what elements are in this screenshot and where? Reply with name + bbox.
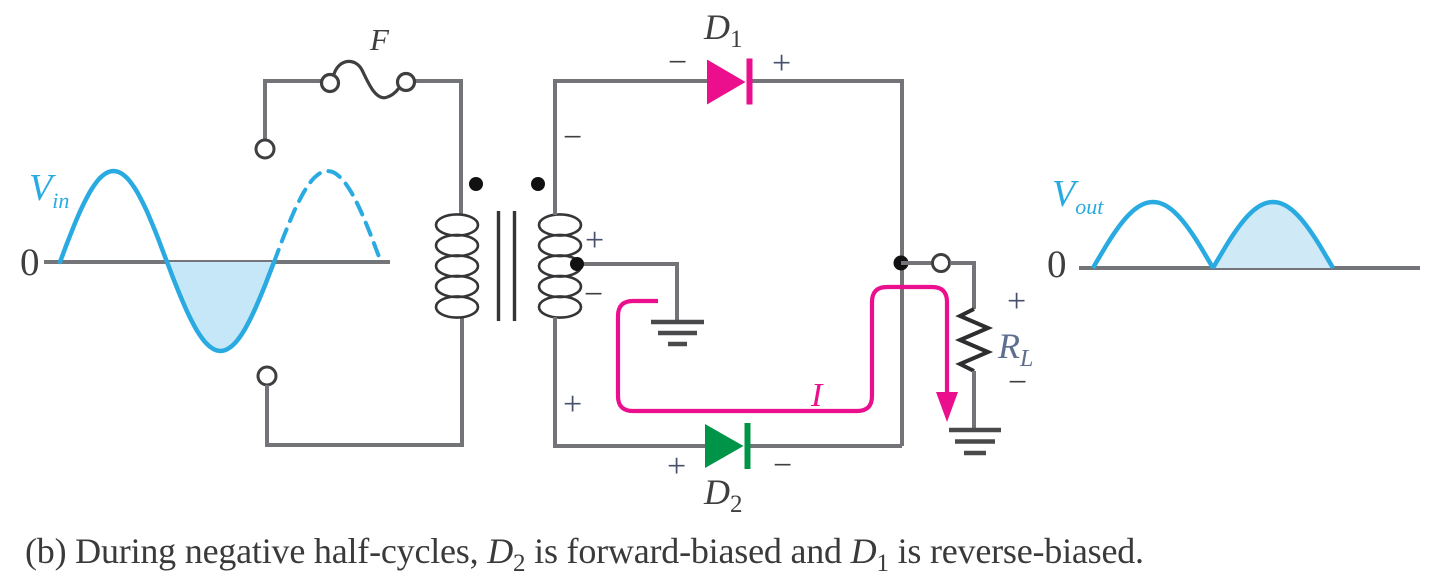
Vout second half-cycle hump (shaded) <box>1213 202 1333 268</box>
diode D1 (reverse-biased, magenta) <box>707 59 750 105</box>
svg-text:+: + <box>667 448 686 485</box>
wire: bottom-left from terminal to primary bottom <box>267 317 462 445</box>
svg-text:+: + <box>1007 283 1026 320</box>
Vout zero axis <box>1079 266 1420 270</box>
resistor RL zigzag <box>960 309 988 371</box>
svg-text:+: + <box>563 386 582 423</box>
svg-text:−: − <box>668 44 687 81</box>
svg-text:I: I <box>810 377 824 414</box>
input terminal (top, open circle) <box>256 140 274 158</box>
svg-text:0: 0 <box>20 241 40 284</box>
ground symbol (center tap) <box>651 322 704 344</box>
wire: RL bottom to ground <box>972 371 976 428</box>
wire: secondary top to D1 anode <box>555 81 709 215</box>
wire: secondary bottom rail to D2 <box>555 317 706 446</box>
svg-text:+: + <box>772 45 791 82</box>
svg-text:D2: D2 <box>703 472 743 518</box>
wire: top-left terminal stub <box>265 81 322 140</box>
svg-text:D1: D1 <box>703 7 743 53</box>
diode D2 (forward-biased, green) <box>705 423 748 469</box>
Vin dashed next positive half-cycle <box>274 171 381 262</box>
transformer secondary winding <box>539 214 581 317</box>
current path I (magenta) <box>618 287 947 411</box>
svg-text:−: − <box>584 276 603 313</box>
svg-text:−: − <box>563 119 582 156</box>
svg-text:F: F <box>369 22 390 57</box>
svg-text:Vin: Vin <box>29 167 69 213</box>
svg-text:Vout: Vout <box>1052 173 1104 219</box>
output node junction dot <box>894 256 909 271</box>
Vin solid sine (positive then negative half-cycle) <box>60 171 274 351</box>
center tap junction dot <box>570 257 584 271</box>
wire: fuse to primary top <box>414 81 461 215</box>
wire: D1 cathode to right rail, down right side <box>751 81 902 446</box>
svg-text:+: + <box>585 222 604 259</box>
Vout first half-cycle hump <box>1093 202 1213 268</box>
wire: node to output terminal <box>901 261 933 265</box>
transformer primary winding <box>436 214 478 317</box>
secondary phase dot <box>531 177 545 191</box>
primary phase dot <box>469 177 483 191</box>
Vin zero axis <box>44 260 390 264</box>
svg-text:(b) During negative half-cycle: (b) During negative half-cycles, D2 is f… <box>25 531 1144 577</box>
svg-text:−: − <box>773 447 792 484</box>
Vin negative half-cycle shaded fill <box>167 262 274 351</box>
ground symbol (RL) <box>949 430 1001 453</box>
wire: D2 to bottom right corner <box>748 444 902 448</box>
wire: center tap to ground <box>580 264 677 320</box>
fuse F symbol <box>322 61 415 97</box>
svg-text:0: 0 <box>1047 243 1067 286</box>
svg-text:−: − <box>1008 364 1027 401</box>
current arrowhead <box>936 392 958 422</box>
output terminal (open circle) <box>933 255 950 272</box>
wire: terminal to RL top <box>950 263 974 309</box>
transformer core <box>499 211 515 321</box>
input terminal (bottom, open circle) <box>258 367 276 385</box>
